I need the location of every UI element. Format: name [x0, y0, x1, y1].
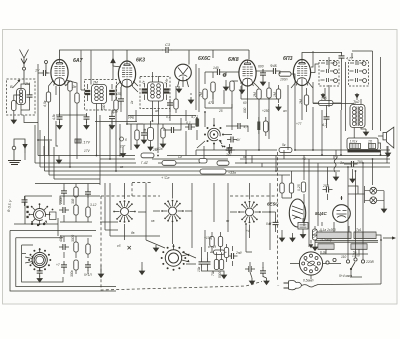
cap under T1: [167, 99, 173, 109]
tube V4 6Zh8: [239, 60, 256, 86]
resistor 27: [313, 229, 324, 240]
inline cap P5: [225, 147, 235, 153]
cap C11 top right: [339, 52, 345, 62]
ground Rc: [160, 141, 165, 148]
dark resistor det: [196, 119, 200, 127]
voltage switch arm: [350, 262, 355, 270]
dashed box antenna coil L1: [7, 79, 36, 115]
svg-text:60: 60: [243, 101, 247, 105]
resistor R17: [280, 183, 284, 193]
power transformer bottom winding b: [351, 244, 367, 250]
svg-text:220В: 220В: [365, 260, 375, 264]
svg-text:6К3: 6К3: [136, 58, 145, 64]
wires eye: [270, 212, 293, 235]
inline resistor P4: [217, 161, 229, 166]
tube V3 6X6C diode: [175, 64, 192, 87]
detector resistor Ra: [135, 130, 139, 140]
tube V1 6A7: [51, 60, 68, 86]
ground V4 grid leak: [223, 84, 228, 91]
wires under R11-R13: [248, 82, 279, 104]
cap bottom d2: [260, 267, 266, 277]
speaker core bar: [348, 150, 381, 152]
svg-text:30д: 30д: [71, 198, 75, 204]
svg-text:Сг: Сг: [178, 155, 182, 159]
cap node small: [185, 124, 195, 130]
cap C8: [214, 69, 224, 75]
svg-text:1М: 1М: [273, 92, 277, 97]
dashed chassis enclosure: [101, 152, 278, 290]
resistor R5: [114, 100, 118, 110]
svg-text:4,77: 4,77: [346, 57, 354, 61]
resistor R18: [289, 183, 293, 193]
extra comp row caps b: [74, 187, 78, 197]
wires cluster: [202, 232, 233, 272]
capacitor C1: [27, 91, 33, 101]
cap C10: [270, 68, 280, 74]
resistor R1: [12, 101, 16, 111]
ground T2: [363, 129, 368, 136]
svg-text:2М: 2М: [253, 92, 257, 98]
cap under S2: [37, 267, 43, 277]
junction dots bus: [69, 120, 382, 241]
phono pickup curl: [334, 157, 338, 173]
cluster cap c3: [228, 253, 238, 259]
svg-text:4,7: 4,7: [244, 125, 249, 129]
cap 47 under pill: [324, 113, 330, 123]
lamp HL1: [370, 187, 377, 194]
resistor R16: [301, 182, 305, 192]
bus y171: [45, 170, 341, 172]
svg-text:+ЗЗн: +ЗЗн: [228, 171, 236, 175]
wires V4 bottom: [205, 80, 259, 104]
svg-text:5+4 мкф: 5+4 мкф: [339, 274, 352, 278]
wafer switch S7: [204, 125, 224, 148]
svg-text:1к: 1к: [130, 100, 134, 104]
ground R13: [276, 104, 281, 111]
wires socket: [290, 240, 341, 279]
transformer core lines: [315, 241, 378, 243]
ground C4: [57, 123, 62, 130]
svg-text:25В: 25В: [322, 184, 330, 188]
cap above contacts: [22, 196, 28, 206]
inline resistor P1: [141, 153, 154, 165]
wires T1: [145, 72, 167, 115]
svg-text:6Е5С: 6Е5С: [267, 202, 279, 207]
svg-text:0,1: 0,1: [166, 115, 171, 119]
ground under antenna box: [13, 116, 15, 117]
ground S2: [37, 276, 42, 283]
bottom-left comp col2 row2: [74, 242, 78, 252]
svg-text:5к: 5к: [143, 128, 147, 132]
wires speaker: [327, 105, 389, 150]
svg-text:5000: 5000: [218, 271, 222, 278]
bottom-left comp col1 row3: [61, 261, 67, 271]
trimmer C7: [164, 90, 170, 93]
ground bus123: [120, 151, 125, 158]
coil L1: [17, 89, 26, 105]
wires tone area: [307, 51, 346, 112]
capacitor C5b: [109, 113, 115, 123]
contact dots left of S1: [26, 206, 45, 226]
svg-text:4,5к: 4,5к: [43, 100, 47, 107]
trimmer C6: [142, 90, 148, 93]
svg-text:+ˊСл: +ˊСл: [161, 176, 170, 180]
output transformer T2 loops: [350, 105, 365, 128]
svg-text:+7: +7: [56, 263, 60, 267]
svg-text:112мкф: 112мкф: [320, 238, 332, 242]
bottom-left comp col1 row1: [59, 207, 69, 213]
junction dots bottom: [341, 197, 343, 199]
ground mid cluster: [153, 245, 158, 252]
tone B row3: [350, 78, 367, 82]
wires grid V4: [205, 72, 239, 84]
cluster res r1: [210, 237, 214, 247]
resistor R2: [46, 92, 50, 102]
cluster res r2: [218, 237, 222, 247]
wire top bus: [60, 50, 250, 61]
bus y159: [100, 158, 390, 160]
cap C9 bypass: [260, 69, 266, 79]
svg-text:200к: 200к: [59, 197, 63, 205]
wire L1 links: [13, 80, 39, 123]
ground C5: [84, 123, 89, 130]
earth electrode symbol: [12, 139, 27, 160]
ground 2: [188, 97, 193, 104]
cap bottom d1: [245, 266, 255, 272]
bus y183: [35, 183, 100, 185]
cap under 6K3: [118, 95, 124, 105]
svg-text:ов: ов: [151, 219, 155, 223]
svg-text:3н: 3н: [73, 85, 77, 89]
tone B row1: [350, 61, 366, 65]
bus y150: [196, 149, 390, 151]
svg-text:0,5амп: 0,5амп: [303, 279, 314, 283]
cap near eye: [273, 219, 279, 229]
wafer S6 concentric: [161, 244, 190, 271]
wire stub: [121, 87, 176, 113]
svg-text:2М: 2М: [299, 99, 303, 105]
svg-text:6А7: 6А7: [73, 58, 84, 64]
power transformer top winding b: [354, 232, 376, 239]
ground chassis mid: [139, 268, 144, 275]
junction dots S7: [204, 111, 206, 113]
svg-text:30: 30: [117, 92, 121, 96]
arrow pot A: [321, 93, 326, 99]
cluster res r3: [224, 248, 228, 258]
tone A row1: [321, 61, 337, 65]
left area wires: [25, 140, 52, 160]
svg-text:140: 140: [213, 66, 219, 70]
tone B row2: [350, 69, 367, 73]
long bus wires: [35, 125, 390, 184]
ground C9: [260, 79, 265, 86]
resistor R3: [68, 81, 72, 91]
ground under 6X6C: [176, 86, 181, 93]
grid cap node: [45, 61, 52, 74]
detector resistor Rb: [143, 128, 154, 141]
grounds bottom center: [249, 278, 254, 285]
power transformer bottom winding a: [318, 244, 334, 250]
ground 27: [312, 244, 317, 251]
wire bus123: [122, 148, 124, 151]
wires under wafers: [105, 196, 270, 264]
svg-text:ап: ап: [155, 109, 159, 113]
extra ground mid: [141, 137, 146, 144]
svg-text:25: 25: [218, 109, 223, 113]
extra mid caps: [141, 129, 147, 139]
small caps cluster c1: [199, 258, 205, 268]
bus y155: [38, 155, 390, 157]
inline resistor P3: [199, 159, 207, 164]
wafer S1: [29, 203, 51, 225]
resistor R12: [267, 88, 271, 98]
resistor R4: [75, 93, 79, 103]
junction dots mid: [109, 158, 111, 160]
svg-text:24б: 24б: [320, 97, 327, 101]
ground left drop: [56, 157, 61, 164]
svg-text:6Ж8: 6Ж8: [228, 57, 239, 63]
cluster res v2: [219, 260, 223, 270]
svg-text:100: 100: [102, 104, 106, 110]
wire stubs chassis: [101, 262, 142, 271]
bottom-left comp col2 row3: [74, 260, 78, 270]
magic eye tube 6E5C: [289, 196, 305, 233]
wire top-right drop: [188, 51, 190, 65]
capacitor C2 grid: [40, 70, 50, 76]
svg-text:2М: 2М: [92, 81, 98, 85]
wires transformer: [312, 196, 381, 284]
wafer S3: [113, 200, 136, 223]
wafer S4: [161, 200, 184, 223]
octal socket X1: [299, 252, 322, 275]
wires S2 left loop: [10, 202, 116, 291]
resistor R15 24k: [319, 97, 334, 106]
svg-text:127В: 127В: [352, 254, 361, 258]
svg-text:4,5к: 4,5к: [52, 114, 56, 120]
wires pills: [259, 117, 266, 136]
lamp HL2: [370, 197, 377, 204]
wires voltage switch: [348, 254, 363, 277]
small box fuse: [298, 223, 308, 230]
svg-text:100п: 100п: [280, 78, 288, 82]
extra comp row caps c: [85, 188, 91, 198]
svg-text:2М: 2М: [152, 148, 158, 152]
wires right verticals: [291, 51, 381, 131]
wire cap S7: [226, 126, 248, 132]
dashed box RF transformer L2: [85, 80, 117, 111]
wire 6P3 top bus: [302, 53, 352, 60]
x mark: [127, 246, 130, 249]
svg-text:300к: 300к: [70, 270, 74, 277]
capacitor C3 top: [162, 42, 172, 53]
resistor R9: [230, 81, 234, 91]
svg-text:10к: 10к: [197, 266, 201, 272]
bus y167: [40, 166, 390, 168]
svg-text:7М: 7М: [199, 92, 203, 97]
tube V5 6P3: [293, 60, 310, 86]
wire B+ rail under IF: [56, 51, 248, 186]
svg-text:0,25: 0,25: [297, 184, 301, 191]
tone A row2: [321, 69, 338, 73]
dial lamps loop: [348, 186, 384, 206]
speaker cone: [383, 127, 394, 148]
pill pair b: [264, 121, 269, 132]
left corner bends: [35, 125, 54, 179]
ground Rb: [148, 144, 153, 151]
svg-text:700: 700: [357, 160, 363, 164]
capacitor C5: [84, 113, 90, 123]
svg-text:267: 267: [225, 153, 232, 157]
earth bar: [8, 161, 21, 165]
voltage switch circles: [326, 258, 365, 264]
AVC arrow: [111, 59, 115, 67]
svg-text:Ф4Б: Ф4Б: [270, 64, 278, 68]
cluster res v1: [214, 260, 218, 270]
ground chassis left: [98, 271, 103, 278]
bottom-left comp col2 row1: [74, 205, 78, 215]
svg-text:+77: +77: [296, 122, 302, 126]
trimmer L2 left: [85, 91, 91, 94]
wire L2: [88, 51, 114, 122]
resistor R10 pill: [279, 72, 291, 76]
svg-text:Я12: Я12: [225, 148, 232, 152]
svg-text:110: 110: [341, 255, 346, 259]
vertical drop wires top-to-bus: [25, 79, 387, 278]
node circle: [223, 74, 226, 77]
svg-text:5Ц4С: 5Ц4С: [315, 211, 327, 216]
svg-text:600: 600: [258, 65, 264, 69]
svg-text:0,1: 0,1: [186, 121, 191, 125]
svg-text:б: б: [125, 138, 127, 142]
inline resistor P6 5k: [279, 143, 292, 153]
wires T2: [313, 99, 366, 138]
svg-text::17V: :17V: [83, 141, 91, 145]
dark resistor pair a: [257, 122, 260, 131]
cap right of S7: [234, 123, 244, 129]
wire C5b: [111, 110, 113, 125]
svg-text:C3: C3: [165, 42, 171, 47]
cap C12: [348, 161, 358, 167]
svg-text:ал: ал: [283, 109, 287, 113]
ground C12: [350, 176, 355, 183]
svg-text:дв: дв: [131, 231, 135, 235]
resistor R13: [276, 89, 280, 99]
antenna: [20, 50, 29, 81]
ground Ra: [134, 142, 139, 149]
wire leg: [241, 85, 243, 87]
cap mid2: [227, 144, 233, 154]
coil T1 loops: [148, 82, 164, 101]
wafer S5: [238, 201, 261, 224]
power plug: [284, 281, 382, 290]
wafer S2 concentric: [25, 248, 51, 272]
dashed tone box A: [319, 61, 339, 87]
detector cap Cd: [168, 127, 178, 133]
label C17V box: [75, 139, 90, 145]
contact box right of S1: [50, 209, 57, 220]
svg-text:2Ω: 2Ω: [367, 140, 373, 144]
bus y163: [35, 162, 390, 164]
long slot resistor: [200, 169, 236, 175]
wires bottom-left cols: [60, 200, 92, 274]
extra comp row caps a: [61, 187, 67, 197]
wires 6X6C: [191, 64, 199, 112]
wire C2 left: [38, 64, 40, 140]
coil L2a+L2b loops: [92, 85, 107, 104]
svg-text:3-12: 3-12: [90, 203, 97, 207]
wires around S7: [186, 112, 232, 150]
ground cluster: [221, 272, 226, 279]
bus y179: [54, 178, 100, 180]
svg-text:2M: 2M: [24, 82, 30, 86]
svg-text:Тр1: Тр1: [356, 228, 362, 232]
rectifier tube 5C4C: [333, 200, 351, 226]
resistor R7: [203, 89, 207, 99]
svg-text:1V: 1V: [35, 69, 40, 73]
svg-text:кв: кв: [120, 165, 124, 169]
cap mid1: [227, 137, 237, 143]
svg-text:ДЗУ: ДЗУ: [111, 110, 119, 114]
svg-text:+4: +4: [246, 229, 250, 233]
wires between V4 V5: [256, 69, 296, 79]
tube V2 6K3: [118, 61, 135, 87]
bottom-left comp col3 row2: [86, 244, 90, 254]
wires under 6K3: [113, 66, 138, 112]
arrow pot B: [355, 93, 360, 99]
svg-text:1,01к: 1,01к: [350, 140, 358, 144]
small caps cluster c2: [205, 258, 211, 268]
bottom-left comp col1 row2: [59, 244, 69, 250]
ground 6Zh8 left leg: [239, 87, 244, 94]
bottom-left comp col3 row3: [85, 261, 91, 271]
ground speaker: [385, 150, 390, 157]
circle mark b: [120, 137, 128, 142]
resistor under T1: [174, 99, 178, 109]
svg-text:+250: +250: [262, 109, 269, 113]
inline resistor P2: [162, 161, 176, 166]
wire left drop: [58, 156, 60, 158]
trimmer L2 right: [109, 91, 115, 94]
grounds eye: [279, 235, 284, 242]
wires pickup: [336, 164, 353, 176]
wires fuse: [303, 218, 315, 244]
svg-text:000: 000: [243, 107, 247, 113]
cluster pill h: [208, 245, 225, 254]
bottom-left comp col3 row1: [86, 207, 90, 217]
ground lamps: [381, 206, 386, 213]
wires under 6A7: [49, 80, 78, 124]
bus y175: [49, 174, 290, 176]
resistor R8: [211, 82, 215, 92]
resistor R14: [304, 95, 308, 105]
svg-text:0,1а 2x300: 0,1а 2x300: [320, 228, 336, 232]
stubs extra row: [64, 184, 88, 203]
speaker field coil box: [347, 138, 378, 150]
ground fuse: [300, 232, 305, 239]
dashed box IF transformer T1: [140, 77, 170, 109]
svg-text:Г-4Z: Г-4Z: [141, 161, 149, 165]
cap C13 25: [323, 187, 333, 193]
svg-text:2нд: 2нд: [235, 251, 242, 255]
svg-text:+10Д: +10Д: [204, 236, 213, 240]
vertical drop x110: [110, 124, 284, 171]
wires R17 R18: [282, 171, 292, 198]
svg-text:сб: сб: [117, 244, 121, 248]
resistor R11: [257, 89, 261, 99]
tone A row3: [321, 78, 338, 82]
svg-text:6Х6С: 6Х6С: [198, 56, 211, 62]
wires detector: [137, 121, 181, 144]
